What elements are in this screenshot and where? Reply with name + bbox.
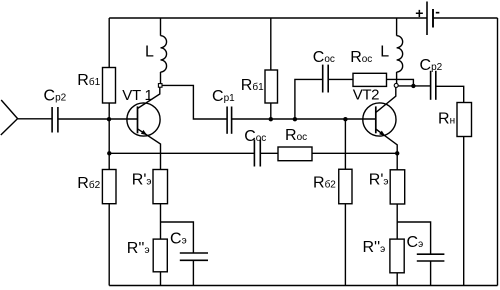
svg-text:VT 1: VT 1 [122,87,152,104]
wire R61-2 to base line [270,103,272,119]
input terminal chevron [1,100,18,135]
wire Cp2 out to Rn [436,86,464,102]
wire top rail right of battery [433,17,498,19]
svg-text:L: L [145,44,154,61]
wire Ce to bottom rail (stage 2) [430,261,432,286]
capacitor Cp1 [227,107,232,134]
resistor R62 (stage 1) [102,170,116,204]
capacitor Cp2 (input) [52,107,58,133]
wire Roc to collector node [387,79,414,86]
wire Ce branch (stage 1) [161,222,194,253]
resistor Roc (lower) [278,147,312,161]
capacitor Coc (upper) [323,65,329,93]
wire R62 to bottom rail [108,204,110,286]
inductor L (stage 1) [161,18,167,84]
wire node to R62 [108,153,110,169]
wire left vertical: rail to R61 [108,18,110,68]
resistor Roc (upper) [353,73,387,86]
wire right border [497,18,499,286]
wire Cp1 to base VT2 [232,118,376,120]
node square collector VT1 [158,84,162,88]
wire Rn to bottom rail [463,137,465,286]
wire R61 to base node [108,103,110,119]
resistor R''e (stage 1) [153,239,167,272]
wire R62-2 to bottom rail [344,204,346,286]
wire Ce to bottom rail (stage 1) [192,260,194,285]
wire collector VT1 to Cp1 [162,85,227,119]
capacitor Ce (stage 1) [180,253,208,260]
node R62-2 [343,117,347,121]
svg-text:+: + [415,5,423,21]
capacitor Coc (lower) [254,140,260,167]
wire base line to R62-2 [344,119,346,169]
transistor VT2 [363,87,397,170]
resistor R61 (stage 2) [265,70,278,103]
svg-text:VT2: VT2 [353,87,379,104]
wire top rail left of battery [109,17,427,19]
wire Coc to Roc (upper) [328,78,353,80]
capacitor Ce (stage 2) [417,254,445,261]
wire lower feedback left [109,152,254,154]
resistor R62 (stage 2) [339,169,352,204]
wire base node down [108,119,110,153]
node square collector VT2 [394,83,398,87]
wire base node to VT1 [109,118,137,120]
svg-text:L: L [380,44,389,61]
transistor VT1 [127,87,161,169]
wire input to Cp2 [18,118,53,120]
svg-text:-: - [435,4,440,20]
battery GB1 [415,2,440,36]
wire riser to upper feedback [295,79,323,119]
capacitor Cp2 (output) [431,71,436,100]
node R61-2 base [269,117,273,121]
wire Coc to Roc (lower) [260,152,278,154]
node collector VT2 feedback [411,84,415,88]
wire R'e to R''e (stage 1) [160,204,162,239]
resistor R'e (stage 2) [390,170,405,204]
resistor R'e (stage 1) [153,170,168,204]
wire Cp2 to base node [58,118,109,120]
wire R''e to bottom rail (stage 2) [396,273,398,286]
wire Ce branch (stage 2) [397,222,430,254]
resistor Rn [457,103,472,137]
node emitter VT2 [395,151,399,155]
resistor R61 (stage 1) [103,68,116,104]
wire collector VT2 to Cp2 out [398,85,431,87]
wire bottom rail [109,285,497,287]
wire R'e to R''e (stage 2) [396,204,398,239]
wire Roc lower to VT2 emitter node [312,152,397,154]
node feedback riser [293,117,297,121]
inductor L (stage 2) [397,18,403,84]
resistor R''e (stage 2) [390,239,404,273]
wire R''e to bottom rail (stage 1) [160,272,162,286]
wire rail to R61 stage 2 [270,18,272,70]
node divider VT1 [107,151,111,155]
node base VT1 [107,117,111,121]
